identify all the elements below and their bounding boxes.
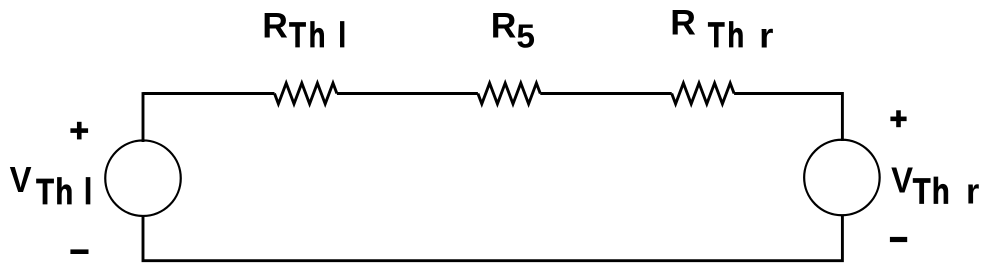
svg-text:R: R: [491, 5, 517, 45]
polarity - of V_Th r: [890, 237, 907, 242]
resistor R_Th l: [275, 83, 337, 104]
wire: top-left horizontal segment: [143, 92, 275, 95]
voltage source V_Th l (circle): [105, 140, 181, 216]
svg-text:R: R: [262, 5, 288, 45]
svg-text:Th l: Th l: [289, 15, 349, 55]
resistor R_Th r: [672, 83, 734, 104]
label R_5: [491, 5, 535, 55]
wire: segment between R_Th l and R_5: [337, 92, 478, 95]
svg-text:V: V: [10, 161, 32, 201]
resistor R_5: [478, 83, 540, 104]
polarity + of V_Th r: [890, 110, 906, 127]
svg-text:5: 5: [516, 19, 535, 56]
wire: left vertical from top wire down to source: [142, 92, 145, 142]
svg-text:Th l: Th l: [36, 171, 93, 212]
svg-text:Th: Th: [913, 171, 951, 212]
wire: segment between R_5 and R_Th r: [540, 92, 671, 95]
polarity + of V_Th l: [70, 122, 88, 140]
polarity - of V_Th l: [70, 249, 88, 254]
svg-text:r: r: [759, 16, 773, 55]
label V_Th r: [891, 161, 980, 212]
svg-text:r: r: [966, 172, 980, 212]
svg-text:V: V: [891, 161, 913, 201]
voltage source V_Th r (circle): [804, 140, 880, 216]
label V_Th l: [10, 161, 94, 212]
svg-text:R: R: [670, 2, 696, 42]
wire: top-right horizontal segment and right vertical down to source: [734, 94, 842, 142]
label R_Th r: [670, 2, 773, 55]
wire: right vertical below source, bottom wire, left vertical below source: [143, 215, 842, 261]
label R_Th l: [262, 5, 349, 54]
svg-text:Th: Th: [708, 15, 747, 55]
